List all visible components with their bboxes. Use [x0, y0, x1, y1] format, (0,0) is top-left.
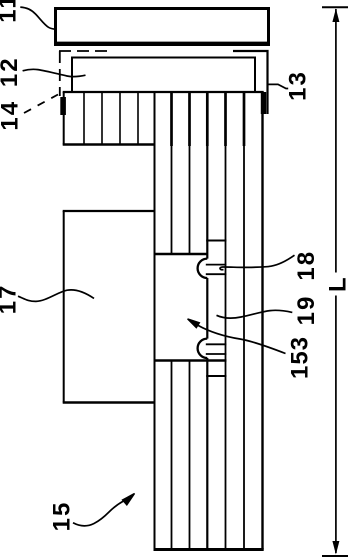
svg-text:153: 153	[287, 336, 314, 379]
svg-text:17: 17	[0, 284, 22, 315]
svg-text:18: 18	[293, 250, 320, 281]
svg-text:19: 19	[293, 295, 320, 326]
svg-text:11: 11	[0, 0, 22, 23]
svg-text:12: 12	[0, 56, 23, 87]
svg-text:L: L	[325, 275, 348, 292]
svg-text:15: 15	[49, 501, 76, 532]
svg-text:13: 13	[285, 70, 312, 101]
svg-text:14: 14	[0, 100, 24, 131]
